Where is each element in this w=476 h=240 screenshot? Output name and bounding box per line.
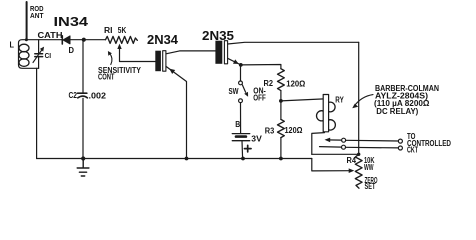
relay lower contact — [320, 145, 403, 150]
wire R3 to rail — [280, 138, 282, 159]
svg-text:D: D — [69, 45, 75, 55]
svg-text:5K: 5K — [118, 25, 127, 35]
wire diode to R1 — [70, 39, 106, 41]
transistor Q1 2N34 — [155, 51, 215, 159]
battery B 3V — [232, 134, 251, 152]
ground rail — [37, 158, 312, 160]
node battery-rail — [241, 157, 245, 161]
svg-text:CONT: CONT — [98, 71, 115, 81]
node R4 top — [357, 153, 360, 156]
node R2/R3 junction — [279, 99, 283, 103]
svg-text:B: B — [235, 119, 240, 129]
svg-text:CKT: CKT — [407, 144, 418, 154]
svg-text:C2: C2 — [69, 90, 78, 100]
wire tank bottom down to ground rail — [36, 68, 38, 158]
wire R2 to junction — [280, 91, 282, 101]
svg-text:OFF: OFF — [253, 92, 265, 102]
svg-text:R2: R2 — [264, 78, 274, 88]
resistor R2 120 ohm — [278, 69, 285, 91]
node antenna junction — [25, 38, 28, 41]
node ground tap — [81, 156, 85, 160]
svg-text:R4: R4 — [347, 155, 357, 165]
svg-text:SET: SET — [365, 181, 376, 191]
relay RY coil — [312, 95, 336, 155]
svg-text:120Ω: 120Ω — [286, 79, 305, 89]
R4 wiper from ground — [312, 159, 355, 174]
svg-text:WW: WW — [364, 162, 374, 172]
node emitter junction — [239, 63, 243, 67]
svg-text:ANT: ANT — [30, 11, 44, 20]
node C2 tap — [82, 38, 86, 42]
svg-text:.002: .002 — [89, 91, 107, 101]
svg-text:RI: RI — [104, 25, 113, 35]
svg-text:2N35: 2N35 — [202, 29, 234, 43]
switch SW on-off — [239, 81, 249, 103]
wire top rail down right side — [358, 42, 360, 154]
resistor R4 10K zero set — [355, 154, 362, 188]
svg-text:3V: 3V — [251, 133, 262, 143]
annotation arrow to relay — [352, 95, 373, 109]
svg-text:RY: RY — [335, 95, 344, 105]
resistor R1 5K (sensitivity pot) — [106, 36, 138, 43]
transistor Q2 2N35 — [215, 41, 358, 65]
R1 wiper to 2N34 base — [117, 44, 155, 62]
svg-text:SW: SW — [229, 86, 240, 96]
svg-text:L: L — [10, 39, 15, 49]
svg-text:IN34: IN34 — [54, 15, 89, 29]
antenna rod — [26, 2, 28, 40]
capacitor C2 .002 — [78, 40, 88, 159]
svg-text:120Ω: 120Ω — [285, 125, 303, 135]
node 2N34 emitter to rail — [185, 157, 189, 161]
sensitivity annotation arrow — [108, 51, 112, 65]
wire tank top to diode — [19, 40, 63, 69]
wire relay bottom to R4 top — [312, 153, 359, 155]
ground symbol — [77, 159, 89, 177]
svg-text:CI: CI — [45, 51, 52, 60]
svg-text:DC RELAY): DC RELAY) — [376, 106, 418, 116]
diode D (1N34) — [62, 36, 70, 44]
wire junction to relay coil — [281, 99, 324, 101]
wire emitter node down to switch — [240, 65, 242, 81]
svg-text:R3: R3 — [265, 125, 275, 135]
wire emitter node to R2 top — [241, 65, 281, 69]
coil L — [19, 44, 29, 66]
wire battery to rail — [241, 141, 244, 159]
node R3-rail — [279, 157, 283, 161]
resistor R3 120 ohm — [278, 119, 285, 137]
wire switch to battery — [240, 103, 242, 133]
svg-text:CATH: CATH — [38, 30, 63, 40]
capacitor C1 (variable) — [33, 40, 44, 69]
wire junction to R3 — [280, 101, 282, 120]
relay armature (upper contact) — [325, 138, 403, 144]
svg-text:2N34: 2N34 — [147, 33, 178, 47]
